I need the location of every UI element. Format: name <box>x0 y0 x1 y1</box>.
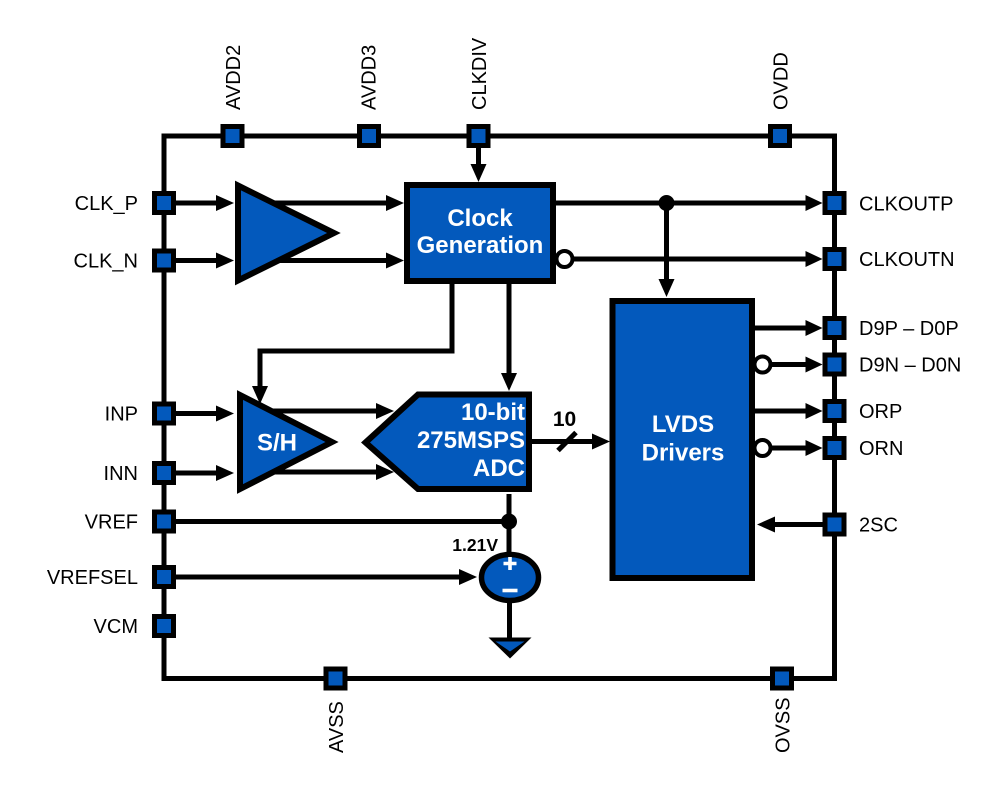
wire CLK_P pin to clock buffer <box>175 201 219 206</box>
pin square AVSS <box>326 669 345 688</box>
wire Clock Generation down-left to S/H <box>260 284 452 388</box>
svg-text:AVDD2: AVDD2 <box>223 45 245 110</box>
svg-text:INN: INN <box>104 463 138 485</box>
svg-text:Drivers: Drivers <box>642 440 725 467</box>
svg-text:10-bit: 10-bit <box>461 399 525 426</box>
pin square D9N-D0N <box>825 355 844 374</box>
inverter bubble on D9N output <box>755 357 771 373</box>
svg-text:2SC: 2SC <box>859 515 898 537</box>
wire clock buffer to Clock Generation (bottom) <box>278 258 389 263</box>
pin square ORP <box>825 402 844 421</box>
bus width slash mark <box>558 433 576 451</box>
svg-text:10: 10 <box>553 408 576 431</box>
Clock Generation block <box>407 185 553 281</box>
svg-text:ORN: ORN <box>859 438 903 460</box>
inverter bubble on CLKOUTN output <box>557 251 573 267</box>
junction node on VREF wire <box>501 514 517 530</box>
inverter bubble on ORN output <box>755 440 771 456</box>
plus sign inside reference <box>504 557 517 570</box>
svg-text:CLK_P: CLK_P <box>75 193 138 215</box>
pin square CLKDIV <box>469 127 488 146</box>
svg-text:CLKOUTN: CLKOUTN <box>859 249 955 271</box>
ground <box>489 638 532 659</box>
wire bubble to ORN pin <box>771 446 808 451</box>
svg-text:275MSPS: 275MSPS <box>417 427 525 454</box>
clock input buffer triangle <box>238 186 334 281</box>
svg-text:Generation: Generation <box>417 232 544 259</box>
wire clock buffer to Clock Generation (top) <box>274 201 389 206</box>
wire junction down to LVDS Drivers <box>664 203 669 282</box>
wire 2SC pin into LVDS <box>772 522 823 527</box>
pin square INP <box>155 404 174 423</box>
wire S/H to ADC (bottom) <box>270 470 379 475</box>
pin square OVDD <box>771 127 790 146</box>
svg-text:ADC: ADC <box>473 455 525 482</box>
minus sign inside reference <box>503 589 518 593</box>
svg-text:ORP: ORP <box>859 401 902 423</box>
svg-text:INP: INP <box>105 404 138 426</box>
wire bubble to CLKOUTN pin <box>573 257 808 262</box>
chip boundary rectangle <box>164 136 835 679</box>
svg-text:Clock: Clock <box>447 205 513 232</box>
wire LVDS to D9P-D0P pin <box>755 326 808 331</box>
pin square AVDD3 <box>360 127 379 146</box>
wire LVDS to ORP pin <box>755 409 808 414</box>
wire CLKDIV pin down into Clock Generation <box>476 148 481 167</box>
voltage reference source 1.21V <box>482 555 539 601</box>
svg-text:LVDS: LVDS <box>652 411 714 438</box>
pin square CLK_P <box>155 194 174 213</box>
wire bubble to D9N-D0N pin <box>771 362 808 367</box>
svg-text:OVDD: OVDD <box>771 52 793 110</box>
pin square INN <box>155 464 174 483</box>
svg-text:1.21V: 1.21V <box>452 535 498 555</box>
pin square ORN <box>825 439 844 458</box>
svg-text:AVDD3: AVDD3 <box>359 45 381 110</box>
S/H amplifier triangle <box>240 395 332 489</box>
svg-text:OVSS: OVSS <box>773 697 795 753</box>
svg-text:VREF: VREF <box>85 512 138 534</box>
junction node on CLKOUTP wire <box>659 195 675 211</box>
pin square OVSS <box>773 669 792 688</box>
svg-text:D9N – D0N: D9N – D0N <box>859 355 961 377</box>
pin square CLKOUTN <box>825 250 844 269</box>
pin square D9P-D0P <box>825 319 844 338</box>
svg-text:VREFSEL: VREFSEL <box>47 567 138 589</box>
wire VREF pin to reference node <box>175 519 509 524</box>
wire reference source to ground <box>507 600 512 641</box>
wire VREFSEL pin to reference source <box>175 575 462 580</box>
pin square CLKOUTP <box>825 194 844 213</box>
pin square 2SC <box>825 515 844 534</box>
wire CLK_N pin to clock buffer <box>175 258 219 263</box>
wire ADC data bus to LVDS Drivers <box>531 439 596 444</box>
svg-text:S/H: S/H <box>257 430 297 457</box>
svg-text:CLKOUTP: CLKOUTP <box>859 194 953 216</box>
LVDS Drivers block <box>613 301 753 578</box>
svg-text:CLK_N: CLK_N <box>74 251 138 273</box>
ADC block (left pointing pentagon) <box>366 395 530 490</box>
wire Clock Generation down to ADC <box>507 284 512 376</box>
pin square VREFSEL <box>155 568 174 587</box>
pin square AVDD2 <box>223 127 242 146</box>
svg-text:CLKDIV: CLKDIV <box>469 37 491 110</box>
svg-text:VCM: VCM <box>94 616 138 638</box>
svg-text:AVSS: AVSS <box>326 701 348 753</box>
pin square CLK_N <box>155 251 174 270</box>
pin square VREF <box>155 512 174 531</box>
wire Clock Generation to CLKOUTP pin <box>556 201 808 206</box>
pin square VCM <box>155 617 174 636</box>
wire INN pin to S/H <box>175 471 219 476</box>
wire INP pin to S/H <box>175 411 219 416</box>
wire S/H to ADC (top) <box>268 409 379 414</box>
wire ADC bottom to reference source <box>507 494 512 554</box>
svg-text:D9P – D0P: D9P – D0P <box>859 318 959 340</box>
